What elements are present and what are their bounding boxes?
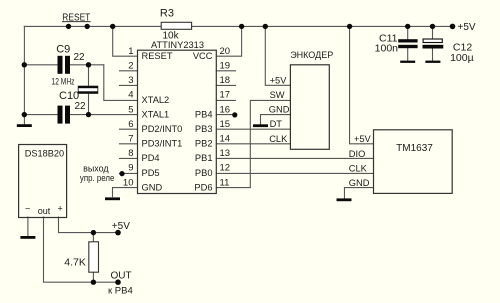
ground at C11 bbox=[400, 61, 415, 63]
svg-text:DT: DT bbox=[270, 119, 283, 129]
IC pin labels right bbox=[193, 51, 213, 192]
junction C11 bbox=[405, 24, 410, 29]
svg-text:C9: C9 bbox=[56, 43, 70, 55]
svg-text:16: 16 bbox=[220, 104, 231, 115]
junction C10 left bbox=[22, 112, 27, 117]
svg-text:PB2: PB2 bbox=[195, 139, 213, 149]
wire pin 17 stub bbox=[216, 99, 235, 101]
wire pin 20 VCC riser bbox=[216, 26, 241, 56]
svg-text:упр. реле: упр. реле bbox=[80, 173, 115, 183]
svg-text:+5V: +5V bbox=[458, 22, 476, 33]
svg-text:out: out bbox=[38, 206, 51, 216]
svg-text:+5V: +5V bbox=[354, 134, 372, 144]
svg-text:PB4: PB4 bbox=[195, 109, 213, 119]
svg-text:+: + bbox=[58, 204, 63, 214]
junction crystal bottom bbox=[86, 112, 91, 117]
svg-text:5: 5 bbox=[128, 104, 133, 115]
junction C9 left bbox=[22, 62, 27, 67]
wire C11 riser top bbox=[407, 26, 409, 39]
junction R4 bottom bbox=[91, 280, 96, 285]
wire left ground rail bbox=[23, 26, 25, 124]
svg-text:10: 10 bbox=[123, 177, 134, 188]
wire TM1637 +5V riser bbox=[350, 26, 374, 143]
svg-text:4: 4 bbox=[128, 90, 133, 101]
wire crystal vertical bbox=[88, 65, 90, 115]
wire pin 9 stub bbox=[120, 172, 138, 174]
wire XTAL2 riser bbox=[104, 65, 138, 101]
junction VCC riser bbox=[239, 24, 244, 29]
terminal OUT bbox=[115, 279, 121, 285]
svg-text:4.7K: 4.7K bbox=[64, 257, 86, 269]
wire PB0 to TM1637 CLK bbox=[216, 172, 373, 174]
ground at IC pin 10 bbox=[105, 197, 120, 200]
node pin 9 PD5 bbox=[119, 171, 124, 176]
svg-text:TM1637: TM1637 bbox=[396, 143, 433, 154]
capacitor C9 plates bbox=[58, 56, 71, 74]
wire DS18B20 minus pin bbox=[27, 217, 29, 236]
svg-text:11: 11 bbox=[220, 177, 230, 188]
wire C12 to ground bbox=[432, 49, 434, 61]
svg-text:DIO: DIO bbox=[349, 149, 366, 159]
svg-text:RESET: RESET bbox=[142, 51, 173, 61]
svg-text:8: 8 bbox=[128, 148, 133, 159]
wire C10 row right to XTAL1 bbox=[70, 114, 138, 116]
wire pin 7 stub bbox=[120, 143, 138, 145]
capacitor C12 plates bbox=[423, 39, 444, 49]
wire pin 3 stub bbox=[120, 84, 138, 86]
junction encoder +5V riser bbox=[263, 24, 268, 29]
wire encoder +5V riser bbox=[265, 26, 290, 85]
svg-text:PD4: PD4 bbox=[142, 153, 160, 163]
svg-text:12: 12 bbox=[220, 163, 231, 174]
svg-text:13: 13 bbox=[220, 148, 231, 159]
svg-text:15: 15 bbox=[220, 119, 231, 130]
wire pin 8 stub bbox=[120, 157, 138, 159]
svg-text:PD6: PD6 bbox=[194, 182, 212, 192]
pin numbers left side bbox=[123, 46, 134, 188]
wire +5V top rail bbox=[24, 25, 452, 27]
wire TM1637 GND stub bbox=[344, 188, 373, 199]
wire pin 2 stub bbox=[120, 70, 138, 72]
junction RESET dot a bbox=[66, 24, 71, 29]
junction C12 bbox=[430, 24, 435, 29]
wire C12 riser top bbox=[432, 26, 434, 39]
svg-text:GND: GND bbox=[142, 182, 163, 192]
wire DS18B20 plus pin to +5V bbox=[59, 217, 119, 233]
ground at DS18B20 minus bbox=[20, 236, 35, 239]
ground at left rail bbox=[17, 124, 32, 127]
svg-text:выход: выход bbox=[83, 163, 109, 173]
svg-text:OUT: OUT bbox=[111, 271, 132, 282]
capacitor C11 plates bbox=[398, 39, 417, 48]
svg-text:22: 22 bbox=[74, 52, 86, 63]
wire PB2 to encoder CLK bbox=[216, 143, 290, 145]
junction RESET dot b bbox=[85, 24, 90, 29]
junction TM1637 +5V riser bbox=[347, 24, 352, 29]
wire pin 19 stub bbox=[216, 70, 235, 72]
IC U1 ATTINY2313 body bbox=[138, 50, 217, 193]
capacitor C10 plates bbox=[58, 106, 71, 124]
svg-text:17: 17 bbox=[220, 90, 231, 101]
IC pin labels left bbox=[142, 51, 183, 192]
svg-text:GND: GND bbox=[269, 105, 290, 115]
svg-text:+5V: +5V bbox=[112, 221, 130, 232]
node pin 16 PB4 bbox=[232, 112, 237, 117]
svg-text:14: 14 bbox=[220, 134, 231, 145]
wire RESET to pin 1 bbox=[113, 26, 138, 56]
svg-text:ЭНКОДЕР: ЭНКОДЕР bbox=[290, 50, 333, 60]
wire R4 bottom stub bbox=[92, 272, 94, 282]
terminal +5V top bbox=[450, 24, 456, 30]
svg-text:CLK: CLK bbox=[269, 134, 288, 144]
ground at C12 bbox=[425, 61, 440, 63]
ground at encoder GND bbox=[253, 124, 268, 127]
wire C10 row left bbox=[24, 114, 57, 116]
svg-text:R3: R3 bbox=[160, 7, 174, 19]
wire C11 to ground bbox=[407, 48, 409, 61]
TM1637 pin labels bbox=[349, 134, 372, 188]
wire C9 row left bbox=[24, 64, 57, 66]
svg-text:7: 7 bbox=[128, 134, 133, 145]
wire PD6 to encoder SW bbox=[216, 100, 290, 187]
wire pin 10 GND bbox=[113, 188, 138, 197]
label выход упр. реле bbox=[80, 163, 115, 183]
svg-text:19: 19 bbox=[220, 61, 231, 72]
wire pin 18 stub bbox=[216, 84, 235, 86]
svg-text:SW: SW bbox=[270, 90, 285, 100]
wire pin 16 stub bbox=[216, 114, 235, 116]
encoder body bbox=[290, 65, 329, 150]
junction pin1 riser bbox=[110, 24, 115, 29]
net label RESET bbox=[62, 12, 91, 23]
wire pin 6 stub bbox=[120, 128, 138, 130]
ground at TM1637 GND bbox=[337, 198, 352, 201]
svg-text:100µ: 100µ bbox=[450, 52, 474, 64]
wire PB1 to TM1637 DIO bbox=[216, 157, 373, 159]
svg-text:DS18B20: DS18B20 bbox=[25, 149, 64, 159]
svg-text:XTAL2: XTAL2 bbox=[142, 95, 170, 105]
encoder pin labels bbox=[269, 75, 290, 143]
junction R4 top bbox=[91, 230, 96, 235]
svg-text:PB1: PB1 bbox=[195, 153, 213, 163]
svg-text:PB0: PB0 bbox=[195, 168, 213, 178]
svg-text:9: 9 bbox=[128, 163, 133, 174]
svg-text:VCC: VCC bbox=[193, 51, 213, 61]
svg-text:PB3: PB3 bbox=[195, 124, 213, 134]
svg-text:−: − bbox=[25, 204, 30, 214]
svg-text:ATTINY2313: ATTINY2313 bbox=[151, 40, 204, 50]
svg-text:3: 3 bbox=[128, 75, 133, 86]
crystal ZQ1 12MHz body bbox=[78, 86, 98, 94]
wire encoder GND stub bbox=[261, 115, 291, 125]
svg-text:+5V: +5V bbox=[270, 75, 288, 85]
svg-text:20: 20 bbox=[220, 46, 231, 57]
svg-text:PD3/INT1: PD3/INT1 bbox=[142, 139, 183, 149]
terminal +5V bottom bbox=[115, 230, 121, 236]
TM1637 body bbox=[374, 130, 453, 194]
wire R4 top stub bbox=[92, 233, 94, 242]
svg-text:12 MHz: 12 MHz bbox=[52, 76, 75, 86]
resistor R4 4.7K body bbox=[89, 242, 99, 272]
DS18B20 body bbox=[19, 145, 67, 218]
junction crystal top bbox=[86, 62, 91, 67]
svg-text:6: 6 bbox=[128, 119, 133, 130]
svg-text:2: 2 bbox=[128, 61, 133, 72]
wire DS18B20 out pin to OUT bbox=[44, 217, 119, 282]
pin numbers right side bbox=[220, 46, 231, 188]
svg-text:100n: 100n bbox=[375, 42, 399, 54]
svg-text:18: 18 bbox=[220, 75, 231, 86]
svg-text:PD2/INT0: PD2/INT0 bbox=[142, 124, 183, 134]
resistor R3 10k body bbox=[161, 22, 191, 29]
svg-text:CLK: CLK bbox=[349, 163, 368, 173]
svg-text:GND: GND bbox=[349, 178, 370, 188]
svg-text:PD5: PD5 bbox=[142, 168, 160, 178]
svg-text:22: 22 bbox=[75, 101, 87, 112]
svg-text:к PB4: к PB4 bbox=[108, 286, 133, 297]
wire PB3 to encoder DT bbox=[216, 128, 290, 130]
wire C9 row right to node bbox=[70, 64, 104, 66]
svg-text:1: 1 bbox=[128, 46, 133, 57]
svg-text:XTAL1: XTAL1 bbox=[142, 109, 170, 119]
